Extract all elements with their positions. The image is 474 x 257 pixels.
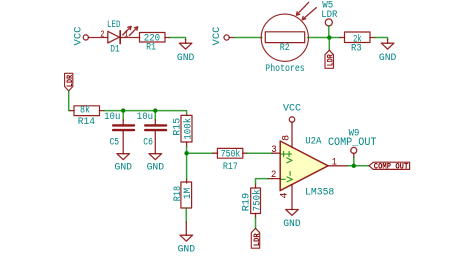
ground GND #3 <box>115 154 133 174</box>
svg-text:LDR: LDR <box>66 75 75 88</box>
test point W5 <box>321 1 337 38</box>
resistor R14 <box>74 105 100 128</box>
svg-text:C6: C6 <box>143 137 153 148</box>
svg-text:4: 4 <box>279 193 290 199</box>
svg-text:2: 2 <box>271 170 277 181</box>
capacitor C5 <box>104 111 134 154</box>
pin 4 of U2A <box>291 185 293 210</box>
svg-text:R14: R14 <box>78 117 95 128</box>
pin 8 of U2A <box>291 122 293 147</box>
svg-text:VCC: VCC <box>283 103 301 114</box>
svg-text:VCC: VCC <box>212 27 223 46</box>
wire R18 to GND <box>185 208 187 222</box>
svg-text:10u: 10u <box>137 112 153 123</box>
wire VCC1 to D1 <box>88 37 107 39</box>
svg-text:3: 3 <box>271 145 277 156</box>
ground GND #1 <box>177 43 195 64</box>
wire R19 to LDR label <box>255 214 257 218</box>
svg-text:100k: 100k <box>182 118 194 140</box>
svg-text:R18: R18 <box>173 186 184 201</box>
wire junction to R17 <box>187 152 213 154</box>
wire LDR label to R14 <box>69 91 70 111</box>
op-amp U2A <box>280 137 334 199</box>
power symbol VCC #1 <box>73 27 88 46</box>
svg-text:W9: W9 <box>349 128 360 139</box>
svg-text:GND: GND <box>177 53 195 64</box>
svg-text:U2A: U2A <box>305 137 321 148</box>
wire R1 to GND <box>165 37 170 39</box>
wire R19 to op-amp pin 2 <box>256 179 273 188</box>
junction node LDR <box>327 35 331 39</box>
svg-text:R3: R3 <box>351 44 362 55</box>
svg-text:R19: R19 <box>242 193 253 212</box>
resistor R15 <box>173 115 195 142</box>
svg-text:COMP_OUT: COMP_OUT <box>374 162 409 171</box>
svg-text:R2: R2 <box>280 43 290 54</box>
svg-text:R1: R1 <box>146 43 156 54</box>
svg-text:8k: 8k <box>80 105 90 117</box>
svg-text:R17: R17 <box>223 162 238 173</box>
ground GND #6 under op-amp <box>283 210 301 230</box>
resistor R3 <box>345 32 371 55</box>
junction node above C6 <box>153 108 157 112</box>
svg-text:GND: GND <box>379 53 397 64</box>
svg-text:GND: GND <box>283 219 301 230</box>
junction node COMP_OUT <box>352 164 356 168</box>
svg-text:VCC: VCC <box>73 27 84 46</box>
resistor R1 <box>140 33 166 54</box>
wire R15 to junction and R18 <box>186 142 188 183</box>
ground GND #4 <box>147 154 165 174</box>
svg-text:GND: GND <box>178 245 196 256</box>
capacitor C6 <box>137 111 166 154</box>
photoresistor R2 <box>261 2 316 75</box>
svg-text:750k: 750k <box>251 189 263 211</box>
svg-text:8: 8 <box>281 135 292 141</box>
svg-text:C5: C5 <box>110 137 120 148</box>
LED D1 <box>107 20 138 56</box>
global label LDR (top) <box>325 50 335 68</box>
wire junction to LDR label <box>328 38 330 51</box>
ground GND #2 <box>379 43 397 64</box>
resistor R19 <box>242 188 264 214</box>
svg-text:1: 1 <box>332 157 337 168</box>
svg-text:LED: LED <box>107 20 121 31</box>
svg-text:GND: GND <box>115 162 133 173</box>
resistor R18 <box>173 182 194 208</box>
svg-text:1M: 1M <box>183 188 194 200</box>
svg-text:LDR: LDR <box>326 54 335 66</box>
pin 1 of U2A output <box>328 165 347 167</box>
global label LDR (left) <box>65 73 75 91</box>
wire R3 to GND <box>370 37 375 39</box>
svg-text:GND: GND <box>147 162 165 173</box>
ground GND #5 <box>178 235 196 255</box>
wire VCC2 to R2 <box>229 37 234 39</box>
power symbol VCC #3 <box>283 103 301 122</box>
svg-text:Photores: Photores <box>265 63 304 75</box>
svg-text:10u: 10u <box>104 112 120 123</box>
svg-text:R15: R15 <box>173 118 184 136</box>
resistor R17 <box>217 148 242 173</box>
wire R14 to R15 <box>100 110 105 112</box>
wire R17 to op-amp pin 3 <box>243 152 247 154</box>
wire R2 to R3 <box>308 37 340 39</box>
junction node below R15 <box>184 151 188 155</box>
svg-text:750k: 750k <box>221 149 241 161</box>
junction node above C5 <box>121 108 125 112</box>
svg-text:LDR: LDR <box>253 233 262 246</box>
global label LDR (bottom) <box>251 228 261 248</box>
svg-text:LM358: LM358 <box>305 188 334 199</box>
svg-text:W5: W5 <box>322 1 333 12</box>
test point W9 <box>328 128 377 165</box>
svg-text:D1: D1 <box>110 45 120 56</box>
global label COMP_OUT <box>369 162 410 171</box>
wire D1 to R1 <box>120 37 139 39</box>
power symbol VCC #2 <box>212 27 229 46</box>
svg-text:2: 2 <box>100 28 105 39</box>
